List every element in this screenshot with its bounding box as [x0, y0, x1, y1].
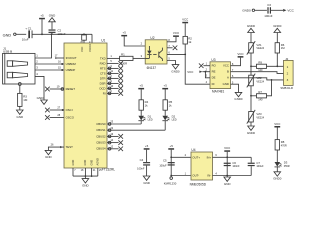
- pin 27 OSCI stub: [50, 106, 64, 111]
- wire U4 -OUT rail: [213, 175, 252, 177]
- wire: [16, 33, 26, 35]
- node VCC terminal (C3): [283, 9, 294, 13]
- capacitor C7 100uF: [248, 163, 255, 167]
- svg-text:+5: +5: [145, 144, 149, 148]
- wire +5 rail: [33, 33, 93, 35]
- no-connect X (CBUS4): [118, 147, 123, 152]
- junction: [276, 65, 278, 67]
- power +5 symbol (C5): [168, 144, 174, 150]
- wire VBUS drop to USB pin1: [35, 34, 52, 58]
- no-connect X (RI): [118, 91, 123, 96]
- wire: [164, 110, 166, 116]
- svg-text:DE: DE: [212, 76, 216, 80]
- svg-text:100uF: 100uF: [256, 164, 264, 168]
- pin 10 DCD stub: [107, 84, 119, 90]
- wire shield row to J2 pin1: [251, 65, 257, 67]
- capacitor C6 100nF: [224, 163, 231, 167]
- pin 12 CBUS4 stub: [107, 144, 119, 150]
- svg-text:140: 140: [258, 68, 263, 72]
- svg-text:LED: LED: [172, 118, 177, 122]
- svg-text:GND0: GND0: [247, 24, 256, 28]
- power VCC symbol (D3): [274, 122, 281, 128]
- svg-text:DI: DI: [212, 82, 215, 86]
- svg-text:C6: C6: [232, 161, 236, 165]
- wire: [267, 65, 284, 67]
- wire: [184, 44, 186, 54]
- svg-text:GND0: GND0: [171, 69, 180, 73]
- ground (USB pin4): [37, 96, 48, 104]
- U2 internal LED: [145, 46, 151, 58]
- svg-text:FT232RL: FT232RL: [102, 167, 116, 171]
- power +5 symbol (D2): [162, 84, 168, 90]
- pin 14 CBUS3 stub: [107, 138, 119, 144]
- svg-text:GND: GND: [143, 181, 150, 185]
- pin 7 stub: [167, 44, 173, 48]
- svg-text:VCCIO: VCCIO: [88, 44, 92, 52]
- svg-text:OUT-: OUT-: [192, 174, 199, 178]
- wire: [146, 150, 148, 162]
- wire U4 +OUT rail: [213, 156, 252, 158]
- node GND0 terminal (C3): [242, 9, 254, 13]
- svg-text:100nF: 100nF: [232, 164, 240, 168]
- pin 6 RI stub: [107, 89, 119, 95]
- U1 bottom GND pins: [73, 168, 102, 179]
- wire: [276, 128, 278, 140]
- svg-text:VCC: VCC: [80, 46, 84, 52]
- capacitor C2 100nF: [49, 29, 56, 33]
- varistor VZ1: [247, 41, 255, 55]
- no-connect X (OSCO): [45, 115, 50, 120]
- svg-text:VCC: VCC: [287, 9, 294, 13]
- junction: [226, 156, 228, 158]
- pin 8 wire to VCC: [167, 37, 176, 42]
- wire: [51, 22, 53, 29]
- LED D3: [275, 162, 282, 167]
- svg-text:C3: C3: [267, 3, 271, 7]
- wire: [226, 157, 228, 175]
- ground (U1 bottom): [82, 179, 89, 188]
- svg-text:GND: GND: [224, 182, 231, 186]
- wire USBDP: [35, 69, 64, 71]
- wire: [146, 166, 148, 176]
- node VCC feed (RE/DE): [187, 70, 202, 74]
- wire: [226, 176, 228, 178]
- wire: [41, 19, 43, 34]
- svg-text:DCD: DCD: [100, 86, 106, 90]
- node GND terminal (USB ground test point): [3, 33, 16, 37]
- pin 3 RTS stub: [107, 64, 119, 70]
- svg-text:VE224: VE224: [256, 79, 264, 83]
- capacitor C1 10uF: [22, 27, 33, 42]
- svg-text:OSCO: OSCO: [66, 115, 75, 119]
- wire: [250, 53, 252, 75]
- wire: [51, 33, 53, 34]
- svg-text:GND0: GND0: [273, 177, 282, 181]
- wire: [271, 9, 283, 11]
- no-connect X (U2 pin7): [173, 46, 178, 51]
- svg-text:GND: GND: [82, 183, 89, 187]
- svg-text:100nF: 100nF: [57, 32, 66, 36]
- junction: [61, 69, 63, 71]
- power +5 symbol (U2 anode): [121, 31, 127, 37]
- wire DE: [205, 72, 210, 78]
- svg-text:R9: R9: [258, 61, 262, 65]
- svg-text:140: 140: [258, 98, 263, 102]
- svg-text:VCC: VCC: [237, 52, 244, 56]
- ground (above C2): [49, 14, 56, 22]
- svg-text:1M: 1M: [281, 46, 286, 50]
- wire: [226, 152, 228, 158]
- svg-text:TXD: TXD: [100, 56, 106, 60]
- junction: [170, 175, 172, 177]
- wire: [267, 80, 272, 96]
- resistor R6 1M: [275, 43, 279, 53]
- wire U2 pin2: [124, 36, 145, 46]
- wire: [184, 23, 186, 36]
- no-connect X (CBUS2): [118, 134, 123, 139]
- pin 1 RO stub: [203, 61, 210, 65]
- no-connect X (RTS): [118, 66, 123, 71]
- junction: [51, 33, 53, 35]
- svg-text:CBUS1: CBUS1: [96, 128, 106, 132]
- wire A line: [231, 78, 284, 80]
- svg-text:RTS: RTS: [100, 66, 106, 70]
- svg-text:AGND: AGND: [96, 158, 100, 166]
- svg-text:OSCI: OSCI: [66, 108, 73, 112]
- svg-text:VCC: VCC: [187, 70, 194, 74]
- junction: [83, 33, 85, 35]
- wire: [276, 33, 278, 43]
- svg-text:GND: GND: [37, 96, 45, 100]
- capacitor C5 100uF: [168, 162, 175, 166]
- no-connect X (RO): [199, 63, 204, 68]
- svg-text:GND: GND: [71, 160, 75, 166]
- svg-text:GND0: GND0: [234, 97, 243, 101]
- LED D2: [162, 116, 169, 121]
- svg-text:RXD: RXD: [100, 61, 106, 65]
- wire USBDM: [35, 63, 64, 65]
- ground GND0 (VZ3): [247, 126, 256, 135]
- svg-text:GND: GND: [3, 33, 12, 37]
- power +5 symbol (D1): [138, 84, 144, 90]
- svg-text:DTR: DTR: [100, 76, 106, 80]
- svg-text:+5: +5: [170, 144, 174, 148]
- wire B line to J2 pin2: [231, 72, 284, 74]
- svg-text:R8: R8: [281, 140, 285, 144]
- ground GND0 (VZ1): [247, 24, 256, 32]
- wire: [164, 89, 166, 99]
- svg-text:+5: +5: [40, 14, 44, 18]
- svg-text:GND: GND: [49, 14, 56, 18]
- svg-text:U1: U1: [101, 39, 105, 43]
- svg-text:CBUS0: CBUS0: [96, 122, 106, 126]
- wire: [19, 106, 21, 110]
- varistor VZ3: [247, 110, 255, 124]
- svg-text:1M: 1M: [23, 98, 28, 102]
- svg-text:VE224: VE224: [256, 46, 264, 50]
- junction: [226, 175, 228, 177]
- wire: [170, 176, 172, 177]
- pin 19 RESET stub: [50, 85, 64, 91]
- svg-text:CBUS2: CBUS2: [96, 134, 106, 138]
- svg-text:+5: +5: [164, 84, 168, 88]
- wire A termination row: [251, 95, 257, 97]
- pin 5 wire to ground: [231, 84, 239, 92]
- svg-text:GND0: GND0: [247, 131, 256, 135]
- svg-text:MAX481: MAX481: [212, 90, 224, 94]
- svg-text:R1: R1: [121, 52, 125, 56]
- svg-text:100nF: 100nF: [137, 167, 145, 171]
- svg-text:TEST: TEST: [66, 145, 73, 149]
- resistor R3 1M (shield): [18, 93, 22, 106]
- resistor R2 1k: [183, 36, 187, 44]
- svg-text:U4: U4: [191, 148, 195, 152]
- pin 23 CBUS0 wire to LED D1: [107, 123, 141, 125]
- pin 17 3V3OUT stub: [55, 53, 64, 58]
- svg-text:IN+: IN+: [207, 155, 212, 159]
- no-connect X (RXD): [118, 61, 123, 66]
- IC U2 6N137 body: [145, 36, 167, 70]
- IC U3 MAX481 body: [210, 58, 231, 94]
- pin 11 CTS stub: [107, 69, 119, 75]
- svg-text:VCC: VCC: [173, 31, 180, 35]
- svg-text:VE224: VE224: [256, 116, 264, 120]
- junction: [205, 71, 207, 73]
- svg-text:6N137: 6N137: [147, 66, 157, 70]
- svg-text:USBDM: USBDM: [66, 62, 77, 66]
- wire: [250, 166, 252, 175]
- svg-text:1k: 1k: [188, 40, 192, 44]
- wire opto output to U3 DI: [185, 54, 210, 84]
- junction: [61, 63, 63, 65]
- connector J1 USB B: [3, 46, 39, 85]
- pin 5 RXD stub: [107, 59, 119, 63]
- pin 9 DSR stub: [107, 79, 119, 85]
- no-connect X (OSCI): [45, 108, 50, 113]
- svg-text:RE: RE: [212, 70, 216, 74]
- wire RE: [202, 71, 210, 73]
- svg-text:100uF: 100uF: [159, 163, 167, 167]
- svg-text:B: B: [227, 70, 229, 74]
- wire: [140, 121, 142, 124]
- wire: [140, 89, 142, 99]
- wire: [276, 53, 278, 66]
- ground (shield): [17, 110, 24, 119]
- svg-text:470R: 470R: [281, 143, 287, 147]
- junction: [170, 156, 172, 158]
- svg-text:CBUS4: CBUS4: [96, 147, 106, 151]
- svg-text:VZ1: VZ1: [256, 43, 262, 47]
- svg-text:VZ3: VZ3: [256, 112, 262, 116]
- svg-text:SMB DLR: SMB DLR: [280, 86, 293, 90]
- wire USB GND pin4: [35, 76, 44, 100]
- junction: [250, 65, 252, 67]
- svg-text:GND0: GND0: [242, 9, 251, 13]
- IC U4 NME0505 body: [190, 148, 213, 186]
- wire: [250, 157, 252, 162]
- junction: [41, 33, 43, 35]
- wire: [276, 150, 278, 162]
- no-connect X (CBUS3): [118, 140, 123, 145]
- wire: [250, 86, 252, 112]
- connector J2 XLR DMX OUT: [280, 57, 293, 90]
- pin 22 CBUS1 wire to LED D2: [107, 129, 165, 131]
- svg-text:+5: +5: [140, 84, 144, 88]
- wire: [164, 121, 166, 130]
- resistor R9 140: [257, 64, 267, 68]
- junction: [184, 54, 186, 56]
- varistor VZ2: [247, 74, 255, 88]
- svg-text:C5: C5: [163, 159, 167, 163]
- resistor R5 1k: [163, 100, 167, 110]
- svg-text:RI: RI: [103, 91, 106, 95]
- pin 2 DTR stub: [107, 74, 119, 80]
- wire shield: [19, 85, 21, 93]
- ground (U4 out): [224, 177, 231, 186]
- svg-text:3V3OUT: 3V3OUT: [66, 56, 77, 60]
- svg-text:GND: GND: [83, 160, 87, 166]
- wire U4 -IN: [171, 175, 191, 177]
- svg-text:GND0: GND0: [273, 24, 282, 28]
- capacitor C4 100nF: [143, 162, 150, 166]
- svg-text:CBUS3: CBUS3: [96, 141, 106, 145]
- svg-text:GND: GND: [89, 160, 93, 166]
- ground (TEST): [45, 150, 52, 159]
- LED D1: [138, 116, 145, 121]
- pin 1 TXD wire to R1: [107, 57, 120, 59]
- svg-text:LED: LED: [148, 118, 153, 122]
- wire: [276, 167, 278, 172]
- svg-text:10uF: 10uF: [22, 37, 29, 41]
- ground GND0 (R6): [273, 24, 282, 32]
- pin 26 TEST wire: [48, 143, 64, 151]
- power VCC symbol (U4 out): [224, 146, 231, 152]
- node KMR1230 terminal: [164, 177, 177, 186]
- svg-text:U2: U2: [150, 36, 154, 40]
- svg-text:RESET: RESET: [66, 87, 76, 91]
- svg-text:U3: U3: [211, 58, 215, 62]
- svg-text:VCC: VCC: [223, 64, 229, 68]
- wire: [250, 122, 252, 126]
- resistor R8 470R: [275, 140, 279, 150]
- svg-text:CTS: CTS: [100, 71, 106, 75]
- svg-text:C7: C7: [256, 161, 260, 165]
- junction: [250, 95, 252, 97]
- power VCC symbol (U3 pin8): [237, 52, 244, 58]
- wire pin20 stub: [83, 40, 85, 43]
- wire: [250, 33, 252, 43]
- svg-text:A: A: [227, 76, 229, 80]
- no-connect X (DTR): [118, 76, 123, 81]
- svg-text:GND: GND: [17, 115, 24, 119]
- no-connect X (DSR): [118, 81, 123, 86]
- wire: [170, 150, 172, 176]
- svg-text:+ C1: + C1: [25, 27, 32, 31]
- svg-text:PWR: PWR: [284, 164, 290, 168]
- wire: [255, 9, 267, 11]
- svg-text:+5: +5: [123, 31, 127, 35]
- ground (C4): [143, 176, 150, 185]
- resistor R4 1k: [139, 100, 143, 110]
- wire pin4 stub: [91, 34, 93, 43]
- svg-text:330R: 330R: [120, 62, 127, 66]
- svg-text:VZ2: VZ2: [256, 76, 262, 80]
- no-connect X (CTS): [118, 71, 123, 76]
- svg-text:OUT+: OUT+: [192, 155, 200, 159]
- svg-text:NME0505D: NME0505D: [190, 182, 207, 186]
- power VCC symbol (R2): [182, 18, 189, 24]
- wire U4 +IN: [171, 156, 191, 158]
- no-connect X (DCD): [118, 86, 123, 91]
- svg-text:C4: C4: [140, 158, 144, 162]
- pin 28 OSCO stub: [50, 113, 64, 117]
- svg-text:USBDP: USBDP: [66, 68, 76, 72]
- svg-text:GND: GND: [223, 82, 229, 86]
- wire: [140, 110, 142, 116]
- wire: [133, 57, 145, 59]
- svg-text:VCC: VCC: [274, 122, 281, 126]
- junction: [271, 79, 273, 81]
- ground GND0 (D3): [273, 172, 282, 181]
- svg-text:KMR1230: KMR1230: [164, 182, 177, 186]
- pin 13 CBUS2 stub: [107, 132, 119, 138]
- ferrite bead FB1: [82, 35, 87, 40]
- pin names U1 left: [66, 56, 77, 149]
- ground (U3 pin5): [234, 92, 243, 101]
- pin 5 wire to ground: [167, 61, 176, 65]
- pin names U1 top/bottom vertical: [71, 44, 100, 166]
- no-connect X (RESET): [45, 87, 50, 92]
- power +5 symbol: [39, 14, 45, 20]
- svg-text:DSR: DSR: [100, 81, 106, 85]
- pin names U1 right: [96, 56, 106, 150]
- U2 internal phototransistor: [153, 48, 162, 61]
- svg-text:GND: GND: [45, 155, 52, 159]
- svg-text:VCC: VCC: [182, 18, 189, 22]
- svg-text:VCC: VCC: [224, 146, 231, 150]
- capacitor C3 100nF: [264, 3, 273, 18]
- svg-text:IN-: IN-: [207, 174, 211, 178]
- pin 8 wire to VCC: [231, 58, 241, 66]
- IC U1 FT232RL body: [64, 39, 115, 172]
- pin names U3: [212, 64, 229, 87]
- power +5 symbol (C4): [144, 144, 150, 150]
- svg-text:100nF: 100nF: [264, 14, 273, 18]
- ground (U2 pin5): [171, 65, 180, 74]
- power VCC symbol (U2 pin8): [173, 31, 180, 37]
- pin 6 wire (opto output): [167, 53, 185, 55]
- svg-text:R7: R7: [258, 90, 262, 94]
- resistor R1 330R: [120, 56, 133, 60]
- resistor R7 140: [257, 94, 267, 98]
